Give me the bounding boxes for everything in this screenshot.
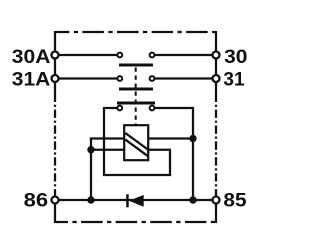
contact K1 bridge bar (30A-30) bbox=[119, 64, 153, 67]
actuator dashed link bbox=[135, 68, 137, 127]
diode V1 (anode triangle) bbox=[129, 195, 144, 207]
svg-text:30: 30 bbox=[224, 47, 247, 68]
contact K2 bridge bar (31A-31) bbox=[119, 88, 153, 91]
armature row3 left circle bbox=[117, 106, 122, 111]
relay housing border top (dash-dot) bbox=[55, 31, 216, 33]
armature row3 right circle bbox=[150, 106, 155, 111]
svg-text:31: 31 bbox=[223, 70, 244, 91]
svg-text:86: 86 bbox=[24, 190, 49, 211]
junction dot right bottom (193,200) bbox=[189, 196, 196, 203]
wire right drop vertical x=193 bbox=[192, 107, 194, 201]
wire contact row2 right to 31 bbox=[154, 77, 214, 79]
junction dot right (193,138.5) bbox=[189, 135, 196, 142]
wire 30A to contact row1 left bbox=[57, 54, 117, 56]
contact row2 right circle bbox=[150, 76, 155, 81]
wire 31A to contact row2 left bbox=[57, 77, 117, 79]
terminal 30A circle bbox=[52, 52, 59, 59]
wire box top-right to coil right side bbox=[147, 149, 171, 151]
wire box bottom bbox=[103, 174, 171, 176]
wire row3 left circle to box left bbox=[104, 107, 118, 109]
terminal 86 circle bbox=[52, 197, 59, 204]
svg-text:31A: 31A bbox=[12, 70, 51, 91]
relay housing border right solid segments bbox=[215, 31, 217, 223]
relay housing border left dash-dot segment bbox=[54, 102, 56, 196]
wire left riser junction to coil left side (upper) bbox=[91, 139, 125, 140]
diode V1 (cathode bar) bbox=[126, 194, 129, 207]
wire 86 to 85 bottom (through diode) bbox=[57, 199, 214, 201]
relay housing border bottom (dash-dot) bbox=[55, 221, 216, 223]
wire box left vertical bbox=[103, 107, 105, 176]
terminal 85 circle bbox=[213, 197, 220, 204]
contact row1 right circle bbox=[150, 53, 155, 58]
wire row3 right circle to right drop bbox=[154, 107, 194, 109]
junction dot left (91,149.7) bbox=[87, 146, 94, 153]
contact row2 left circle bbox=[117, 76, 122, 81]
terminal 31 circle bbox=[213, 75, 220, 82]
junction dot left bottom (91,200) bbox=[87, 196, 94, 203]
wire box right vertical bbox=[169, 150, 171, 176]
svg-text:85: 85 bbox=[223, 190, 246, 211]
terminal 31A circle bbox=[52, 75, 59, 82]
wire left riser vertical x=91 bbox=[90, 138, 92, 201]
relay coil K (winding box with diagonal band) bbox=[124, 125, 148, 160]
terminal 30 circle bbox=[213, 52, 220, 59]
wire contact row1 right to 30 bbox=[154, 54, 214, 56]
armature carrier bar bbox=[117, 102, 155, 105]
relay housing border left solid segments bbox=[54, 31, 56, 223]
svg-text:30A: 30A bbox=[12, 47, 51, 68]
relay housing border right dash-dot segment bbox=[215, 102, 217, 196]
wire left junction to coil left side (lower) bbox=[90, 149, 125, 151]
contact row1 left circle bbox=[117, 53, 122, 58]
wire coil right side to right drop junction bbox=[147, 137, 193, 139]
